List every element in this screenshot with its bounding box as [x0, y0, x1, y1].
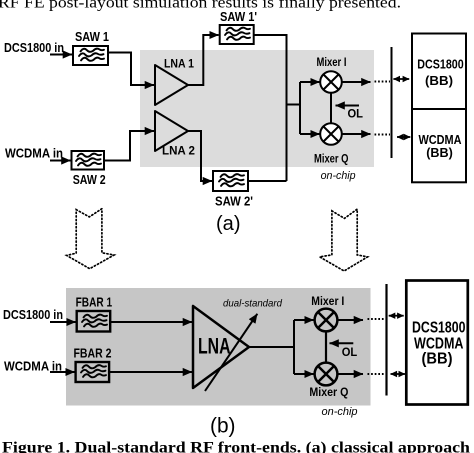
node: interface bar (b) [385, 284, 387, 396]
block WCDMA (BB) [412, 109, 466, 182]
svg-text:DCS1800 in: DCS1800 in [3, 307, 63, 322]
op-amp LNA dual-standard (b) [193, 306, 249, 388]
wire: Mixer Q output arrow (a) [342, 133, 371, 135]
wire: I-Q junction line (a) [330, 93, 332, 124]
wire: dotted link I (a) [375, 81, 391, 83]
wire: dotted link I (b) [368, 318, 386, 320]
svg-text:Mixer I: Mixer I [317, 57, 347, 69]
wire: SAW 1 output to LNA 1 input [108, 53, 146, 86]
wire: LNA 1 output up to SAW 1' [186, 35, 210, 85]
filter FBAR 1 [77, 311, 111, 332]
filter SAW 2 [72, 151, 105, 170]
mixer U4 Mixer Q (b) [315, 363, 338, 386]
svg-text:SAW 1': SAW 1' [220, 9, 257, 24]
svg-text:LNA: LNA [198, 334, 231, 359]
wire: DCS1800 input arrow into SAW 1 [50, 54, 72, 56]
wire: OL arrow (b) [330, 342, 354, 344]
wire: FBAR 2 output to LNA [109, 371, 192, 373]
svg-text:DCS1800: DCS1800 [412, 320, 466, 337]
op-amp LNA 1 [155, 65, 188, 105]
wire: dotted link Q (b) [368, 373, 386, 375]
filter SAW 1' [220, 25, 254, 44]
filter FBAR 2 [76, 362, 110, 382]
svg-text:(b): (b) [210, 414, 236, 438]
mixer U3 Mixer I (b) [315, 309, 338, 332]
svg-text:on-chip: on-chip [322, 406, 358, 418]
svg-text:OL: OL [342, 345, 358, 359]
wire: WCDMA input arrow into FBAR 2 [50, 371, 75, 373]
tuning arrow through LNA [205, 314, 257, 391]
svg-text:dual-standard: dual-standard [223, 299, 282, 310]
svg-text:SAW 1: SAW 1 [75, 29, 109, 44]
wire: arrow into Mixer I [300, 81, 320, 83]
wire: LNA output to mixer split (b) [249, 320, 294, 374]
block DCS1800 WCDMA (BB) [406, 281, 468, 405]
svg-text:WCDMA in: WCDMA in [5, 146, 63, 161]
mixer U2 Mixer Q (a) [320, 123, 342, 145]
on-chip shaded region (a) [140, 50, 374, 167]
wire: arrow into Mixer Q [300, 133, 320, 135]
wire: SAW 2' output to shared line [248, 180, 287, 182]
wire: DCS1800 input arrow into FBAR 1 [50, 321, 76, 323]
wire: dotted link Q (a) [375, 134, 391, 136]
svg-text:(a): (a) [216, 213, 241, 235]
wire: arrow into Mixer Q (b) [294, 373, 314, 375]
wire: Mixer I output arrow (b) [338, 319, 364, 321]
svg-text:OL: OL [348, 107, 364, 121]
svg-text:DCS1800: DCS1800 [417, 57, 463, 72]
wire: shared node to mixer split [287, 82, 301, 134]
svg-text:on-chip: on-chip [321, 170, 356, 182]
node: interface bar (a) [391, 47, 393, 158]
svg-text:(BB): (BB) [426, 145, 453, 160]
svg-text:SAW 2': SAW 2' [215, 194, 253, 209]
wire: bidirectional arrow to DCS1800 BB [393, 78, 409, 80]
wire: bidirectional arrow to BB (I) [389, 315, 404, 317]
op-amp LNA 2 [155, 111, 188, 151]
dashed block arrow left [67, 209, 115, 269]
wire: Mixer Q output arrow (b) [338, 373, 364, 375]
svg-text:FBAR 2: FBAR 2 [74, 346, 112, 361]
dashed block arrow right [320, 209, 368, 271]
wire: FBAR 1 output to LNA [110, 321, 192, 323]
svg-text:RF FE post-layout simulation r: RF FE post-layout simulation results is … [0, 0, 401, 12]
svg-text:(BB): (BB) [425, 73, 453, 88]
wire: OL arrow (a) [336, 105, 360, 107]
svg-text:Mixer Q: Mixer Q [314, 154, 349, 166]
on-chip shaded region (b) [66, 288, 371, 406]
wire: bidirectional arrow to BB (Q) [391, 373, 406, 375]
filter SAW 2' [213, 171, 248, 191]
wire: SAW 1' output down the shared line [254, 35, 287, 181]
svg-text:Figure 1. Dual-standard RF fro: Figure 1. Dual-standard RF front-ends. (… [2, 439, 470, 453]
svg-text:LNA 1: LNA 1 [164, 59, 195, 71]
svg-text:Mixer I: Mixer I [311, 296, 344, 308]
svg-text:(BB): (BB) [422, 351, 453, 368]
svg-text:LNA 2: LNA 2 [162, 146, 195, 158]
wire: arrow into Mixer I (b) [294, 319, 314, 321]
wire: SAW 2 output to LNA 2 input [104, 131, 146, 161]
svg-text:DCS1800 in: DCS1800 in [4, 40, 64, 55]
block DCS1800 (BB) [412, 34, 466, 110]
filter SAW 1 [73, 46, 108, 65]
wire: I-Q junction line (b) [325, 332, 327, 362]
svg-text:SAW 2: SAW 2 [73, 172, 106, 187]
wire: WCDMA input arrow into SAW 2 [50, 160, 71, 162]
svg-text:Mixer Q: Mixer Q [309, 387, 348, 399]
wire: bidirectional arrow to WCDMA BB [397, 136, 410, 138]
wire: LNA 2 output down to SAW 2' [186, 131, 206, 181]
svg-text:FBAR 1: FBAR 1 [76, 295, 113, 310]
wire: Mixer I output arrow (a) [342, 81, 371, 83]
mixer U1 Mixer I (a) [320, 71, 342, 93]
